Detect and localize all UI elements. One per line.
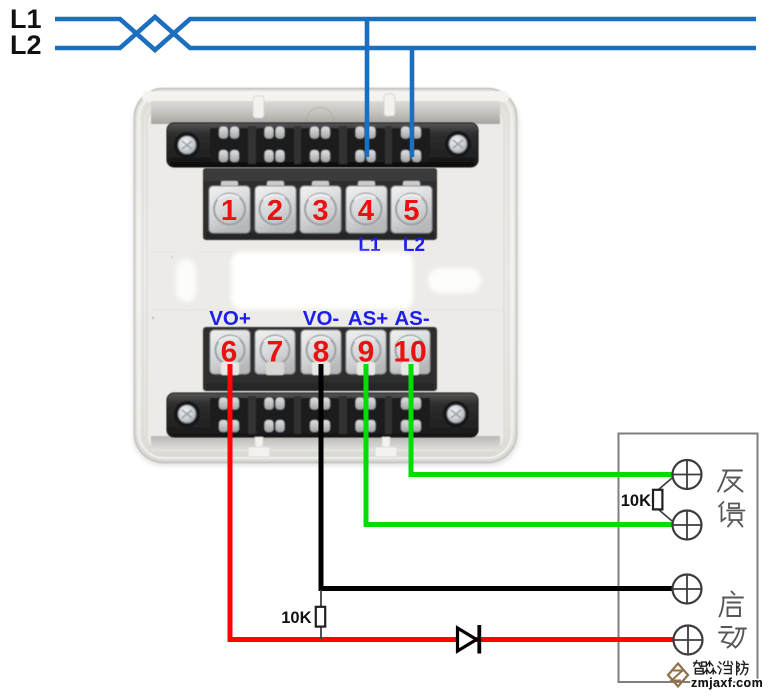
top clip tab left [253, 94, 395, 118]
text 启 (start char 1) [720, 592, 744, 617]
left oval hole [176, 259, 196, 302]
terminal 2 metal [255, 181, 296, 233]
right oval hole [428, 268, 481, 293]
wire green AS- from terminal 10 [411, 364, 673, 475]
strip screw right [445, 131, 471, 157]
svg-text:2: 2 [267, 195, 283, 227]
svg-text:AS-: AS- [394, 307, 429, 330]
text 反 (feedback char 1) [718, 471, 743, 492]
svg-text:VO-: VO- [303, 307, 339, 330]
svg-text:5: 5 [403, 195, 419, 227]
module inner face [147, 107, 504, 452]
svg-text:1: 1 [221, 195, 237, 227]
svg-text:10: 10 [393, 336, 426, 369]
terminal 9 metal [346, 330, 386, 375]
faint mid seam [150, 252, 503, 310]
wire drop from L1 line to terminal 4 [365, 19, 370, 157]
terminal 6 metal [210, 330, 250, 375]
svg-text:3: 3 [312, 195, 328, 227]
terminal 4 metal [346, 181, 387, 233]
resistor 10K between black and red wire [316, 590, 325, 639]
wire L2 loop line (with crossover) [55, 17, 756, 48]
wire black VO- from terminal 8 [321, 364, 674, 589]
terminal circle feedback + [673, 460, 702, 489]
control box outline [619, 434, 758, 683]
svg-text:4: 4 [358, 195, 374, 227]
terminal 5 metal [391, 181, 432, 233]
svg-text:7: 7 [267, 336, 284, 369]
top terminal strip [167, 123, 478, 167]
terminal 3 metal [300, 181, 341, 233]
resistor 10K between feedback terminals [653, 478, 672, 521]
terminal 1 metal [209, 181, 250, 233]
module base shadow [133, 91, 519, 466]
watermark logo [668, 664, 688, 687]
svg-text:AS+: AS+ [348, 307, 388, 330]
watermark text 智淼消防 [693, 661, 748, 675]
terminal 10 metal [390, 330, 430, 375]
strip screw left [174, 401, 200, 427]
bottom terminal strip [167, 393, 478, 437]
strip screw right [443, 401, 469, 427]
bottom clip tab left [248, 437, 397, 457]
svg-text:L2: L2 [10, 30, 42, 60]
svg-text:zmjaxf.com: zmjaxf.com [691, 676, 763, 690]
text 动 (start char 2) [719, 627, 746, 648]
center label recess [231, 252, 413, 309]
svg-text:10K: 10K [621, 492, 651, 510]
wire drop from L2 line to terminal 5 [410, 48, 415, 157]
svg-text:VO+: VO+ [209, 307, 251, 330]
wire red VO+ from terminal 6 [230, 364, 673, 640]
svg-text:9: 9 [358, 336, 375, 369]
terminal circle feedback - [673, 511, 702, 540]
svg-text:8: 8 [313, 336, 330, 369]
text 馈 (feedback char 2) [719, 502, 745, 527]
top clip tab right [384, 94, 395, 116]
strip screw left [174, 132, 200, 158]
svg-text:6: 6 [221, 336, 238, 369]
terminal circle start - [674, 626, 703, 655]
bottom clip tab right [382, 437, 390, 449]
svg-text:10K: 10K [281, 609, 311, 627]
wire L1 loop line (with crossover) [55, 19, 756, 50]
terminal 7 metal [255, 330, 295, 375]
strip metal contacts [219, 127, 421, 163]
diode on red wire [458, 625, 480, 654]
wire green AS+ from terminal 9 [366, 364, 673, 525]
terminal 8 metal [301, 330, 341, 375]
terminal block row 1-5 [203, 168, 437, 240]
module base body [135, 89, 517, 463]
strip recesses and dividers [210, 126, 430, 164]
dust specks [152, 317, 154, 319]
terminal block row 6-10 [203, 327, 437, 391]
terminal circle start + [673, 575, 702, 604]
